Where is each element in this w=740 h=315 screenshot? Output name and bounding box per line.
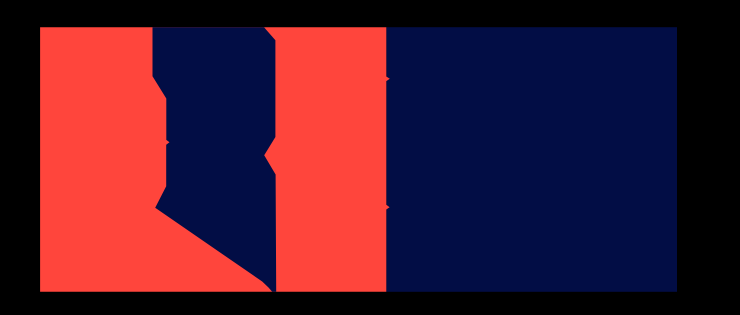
red block with ink-trap arrows bbox=[40, 27, 390, 292]
navy middle glyph bbox=[153, 27, 277, 292]
navy square (right block) bbox=[386, 27, 677, 292]
